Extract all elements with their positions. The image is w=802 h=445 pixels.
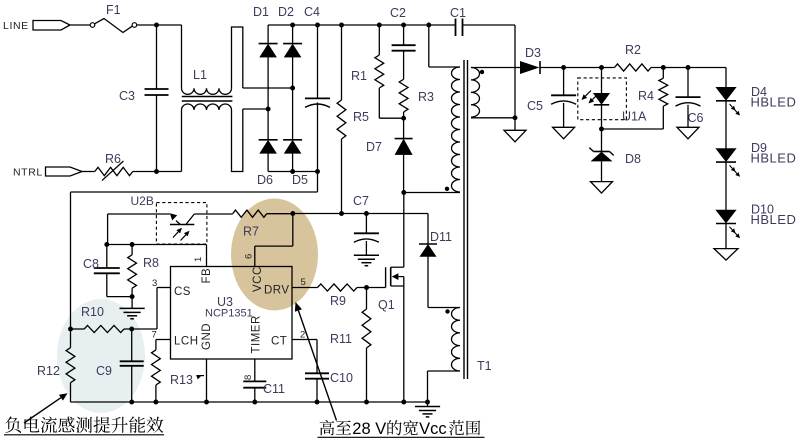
- wire R8 top: [131, 245, 133, 255]
- resistor R5: [337, 100, 346, 139]
- wire U1A LED bottom: [601, 105, 603, 129]
- wire D7 anode down: [403, 155, 405, 193]
- R13 pointer mark: [196, 376, 204, 380]
- wire C3 top: [156, 25, 158, 89]
- svg-text:R9: R9: [330, 294, 346, 308]
- capacitor C7: [354, 233, 379, 242]
- ground main: [415, 407, 440, 417]
- T1 auxiliary winding: [452, 308, 461, 372]
- optocoupler U2B dashed box: [156, 203, 207, 244]
- svg-text:D1: D1: [253, 5, 269, 19]
- wire U1A LED top: [601, 68, 603, 94]
- wire U2B emitter to R7: [194, 213, 232, 215]
- svg-text:C1: C1: [450, 6, 466, 20]
- junction gate/R11: [364, 285, 369, 290]
- U1A light arrow 2: [589, 94, 599, 104]
- svg-text:FB: FB: [201, 268, 213, 284]
- junction R10/C9: [129, 327, 134, 332]
- wire negative return left leg: [70, 192, 72, 329]
- D9 light arrow 2: [734, 170, 740, 177]
- resistor R9: [318, 284, 358, 291]
- wire aux bottom terminal: [428, 371, 461, 402]
- svg-text:C4: C4: [304, 5, 320, 19]
- svg-text:7: 7: [152, 330, 157, 341]
- ground under LED string: [714, 249, 738, 261]
- diode D5: [283, 140, 302, 154]
- resistor R8: [128, 255, 137, 288]
- ground (secondary) under C1 leg: [504, 130, 526, 142]
- junction R1/R3 node: [401, 116, 406, 121]
- LED D4: [716, 87, 736, 101]
- wire R10 left: [71, 328, 85, 330]
- svg-text:2: 2: [300, 330, 305, 341]
- wire bridge - rail: [268, 171, 317, 173]
- svg-text:T1: T1: [477, 359, 492, 373]
- wire R11 bottom: [366, 348, 368, 402]
- svg-text:8: 8: [243, 375, 254, 380]
- wire D2 top stub: [292, 25, 294, 44]
- svg-text:C2: C2: [390, 6, 406, 20]
- junction rail R11: [364, 400, 369, 405]
- svg-text:CS: CS: [174, 286, 191, 298]
- ground under C6: [677, 127, 699, 139]
- resistor R1: [375, 55, 384, 88]
- svg-text:C6: C6: [688, 111, 704, 125]
- wire GND pin: [206, 359, 208, 402]
- junction LED/R4/D8: [599, 127, 604, 132]
- wire C7 gnd stub: [365, 241, 367, 255]
- wire C1 right to secondary side: [463, 25, 516, 118]
- wire D1-D6 column: [267, 57, 269, 140]
- inductor L1 bottom winding: [182, 104, 232, 110]
- wire D11 top stub: [427, 214, 429, 245]
- svg-text:U1A: U1A: [622, 110, 647, 124]
- wire primary feed: [429, 25, 460, 67]
- annotation 2 text part 范围: [449, 420, 480, 435]
- D10 light arrow 1: [730, 227, 736, 234]
- wire primary bottom to drain column: [403, 193, 405, 268]
- wire R10 right to CS: [124, 328, 157, 330]
- junction out at C5: [561, 65, 566, 70]
- svg-text:R5: R5: [353, 110, 369, 124]
- svg-text:HBLED: HBLED: [751, 95, 797, 110]
- wire R9 to gate: [357, 287, 386, 289]
- junction C8/R8 gnd node: [130, 294, 135, 299]
- junction FB at R8: [130, 242, 135, 247]
- T1 secondary winding: [471, 68, 480, 118]
- svg-text:Vcc: Vcc: [419, 420, 447, 438]
- svg-text:VCC: VCC: [252, 266, 264, 292]
- svg-text:U2B: U2B: [131, 194, 154, 208]
- ground under C7: [354, 255, 379, 265]
- wire CT pin 2: [292, 340, 317, 374]
- LED D9: [716, 149, 736, 163]
- svg-text:R11: R11: [330, 332, 352, 346]
- highlight ellipse (ochre) around R7/VCC area: [231, 199, 318, 311]
- wire D4 to D9: [725, 101, 727, 149]
- junction R10/R12 node: [68, 327, 73, 332]
- wire secondary top to D3: [471, 67, 520, 69]
- U2B phototransistor: [170, 213, 195, 224]
- U1A light arrow 1: [582, 91, 592, 101]
- inductor L1 top winding: [182, 88, 232, 94]
- diode D2: [283, 44, 302, 58]
- resistor R12: [66, 348, 75, 383]
- svg-text:D3: D3: [525, 46, 541, 60]
- junction rail at D2: [290, 23, 295, 28]
- wire D8 top: [601, 129, 603, 152]
- wire D2-D5 column: [292, 57, 294, 140]
- annotation 1 arrow: [24, 393, 68, 423]
- resistor R4: [659, 78, 668, 106]
- svg-text:DRV: DRV: [264, 285, 290, 297]
- svg-text:R2: R2: [625, 43, 641, 57]
- wire C8 top: [106, 245, 108, 269]
- wire AC input 2 to bridge: [243, 87, 293, 89]
- wire LCH pin 7: [156, 340, 171, 350]
- svg-text:R10: R10: [81, 305, 104, 319]
- capacitor C10: [305, 373, 329, 378]
- capacitor C11: [243, 381, 266, 387]
- capacitor C9: [120, 361, 144, 366]
- wire C3 bottom: [156, 95, 158, 172]
- connector NTRL: [46, 167, 83, 176]
- resistor R13: [152, 350, 161, 385]
- svg-text:GND: GND: [201, 323, 213, 350]
- junction FB at C8: [104, 242, 109, 247]
- wire TIMER pin 8: [254, 359, 256, 381]
- wire L1 top-right up-and-over: [231, 27, 244, 88]
- wire AC input 1 to bridge: [243, 108, 268, 110]
- wire C11 bottom: [254, 388, 256, 402]
- wire R1 top: [378, 25, 380, 55]
- junction rail at C2: [401, 23, 406, 28]
- svg-text:C7: C7: [353, 194, 369, 208]
- wire FB line: [107, 244, 207, 246]
- wire gnd stub bottom: [427, 402, 429, 407]
- wire R1 bottom: [379, 88, 403, 118]
- svg-text:CT: CT: [271, 336, 287, 348]
- svg-text:TIMER: TIMER: [251, 315, 263, 353]
- wire D5 anode stub: [292, 153, 294, 171]
- optocoupler U1A dashed box: [578, 78, 627, 120]
- svg-text:D11: D11: [430, 230, 452, 244]
- junction rail at R1: [377, 23, 382, 28]
- wire C6 gnd stub: [687, 105, 689, 128]
- svg-text:R6: R6: [105, 152, 121, 166]
- wire negative return right leg: [317, 172, 319, 193]
- wire C5 gnd stub: [563, 103, 565, 127]
- T1 primary polarity dot: [445, 187, 449, 191]
- junction R7/Vcc line: [290, 211, 295, 216]
- resistor R3: [399, 79, 408, 112]
- svg-text:D5: D5: [292, 173, 308, 187]
- wire to LED string: [725, 68, 727, 88]
- svg-text:LCH: LCH: [174, 336, 199, 348]
- connector LINE: [33, 21, 70, 31]
- zener diode D8: [589, 148, 613, 162]
- wire aux top terminal: [428, 307, 460, 309]
- wire C7 top: [365, 214, 367, 234]
- svg-text:D8: D8: [625, 152, 641, 166]
- junction rail TIMER/C11: [252, 400, 257, 405]
- junction out at U1A LED: [599, 65, 604, 70]
- wire D1 top stub: [267, 25, 269, 44]
- fuse F1: [90, 19, 137, 33]
- wire R5 bottom: [341, 139, 343, 214]
- wire C4 top: [317, 25, 319, 98]
- D9 light arrow 1: [730, 165, 736, 172]
- junction NTRL rail / C3 bottom: [154, 169, 159, 174]
- svg-text:LINE: LINE: [3, 20, 29, 32]
- resistor R10: [84, 325, 124, 332]
- svg-text:3: 3: [152, 278, 157, 289]
- junction rail C10: [315, 400, 320, 405]
- svg-text:NCP1351: NCP1351: [205, 308, 253, 320]
- wire R6 to L1: [133, 171, 182, 173]
- junction - rail at C4: [315, 169, 320, 174]
- svg-text:NTRL: NTRL: [13, 167, 43, 179]
- wire bridge + rail: [268, 24, 455, 26]
- svg-text:R8: R8: [143, 256, 159, 270]
- wire FB pin 1: [206, 245, 208, 267]
- wire Vcc pin route: [255, 214, 293, 267]
- wire C2 top: [403, 25, 405, 45]
- junction rail at primary feed: [426, 23, 431, 28]
- wire NTRL to R6: [82, 171, 95, 173]
- resistor R7: [233, 210, 267, 217]
- junction rail at R5: [339, 23, 344, 28]
- T1 aux polarity dot: [445, 309, 449, 313]
- wire R2 to LED string: [651, 67, 726, 69]
- wire C8 bottom: [107, 273, 132, 296]
- junction rail GND pin: [204, 400, 209, 405]
- wire D10 to gnd: [725, 224, 727, 249]
- op-amp U3 box: [171, 267, 293, 360]
- svg-text:1: 1: [193, 257, 204, 262]
- capacitor C2: [392, 45, 416, 51]
- svg-text:C5: C5: [527, 99, 543, 113]
- junction out at C6: [686, 65, 691, 70]
- svg-text:HBLED: HBLED: [751, 212, 797, 227]
- wire D6 anode stub: [267, 153, 269, 171]
- junction rail aux gnd: [425, 400, 430, 405]
- U2B light arrow 2: [181, 231, 190, 241]
- svg-text:D7: D7: [366, 140, 382, 154]
- svg-text:F1: F1: [106, 3, 121, 17]
- svg-text:R4: R4: [638, 89, 654, 103]
- wire C2 to R3: [403, 51, 405, 80]
- ground under R8: [120, 308, 145, 318]
- capacitor C3: [145, 89, 169, 95]
- wire C9 bottom: [131, 366, 133, 402]
- annotation 1 underline: [4, 434, 164, 436]
- wire R8 bottom: [131, 288, 133, 296]
- annotation 2 underline: [318, 436, 485, 438]
- T1 secondary polarity dot: [480, 70, 484, 74]
- wire C9 top: [131, 329, 133, 361]
- junction Vcc at R5: [339, 211, 344, 216]
- capacitor C4: [305, 98, 330, 107]
- junction bridge - at D5: [290, 169, 295, 174]
- svg-text:L1: L1: [193, 68, 207, 82]
- svg-text:5: 5: [301, 277, 306, 288]
- wire U2B collector: [108, 214, 170, 245]
- svg-text:R13: R13: [170, 373, 193, 387]
- wire L1 bottom-left terminal: [181, 110, 183, 172]
- D4 light arrow 1: [730, 104, 736, 111]
- junction LINE rail / C3 top: [154, 23, 159, 28]
- diode D11: [419, 244, 437, 257]
- capacitor C6: [676, 97, 701, 106]
- wire D3 to R2: [540, 67, 615, 69]
- highlight ellipse (light blue) around R12/C9/R10: [57, 299, 145, 413]
- resistor R6 (fusible): [95, 167, 133, 175]
- wire R3 bottom: [403, 112, 405, 139]
- wire R4 bottom: [602, 106, 664, 129]
- D10 light arrow 2: [734, 232, 740, 239]
- wire secondary bottom: [471, 117, 515, 119]
- diode D3: [520, 61, 540, 74]
- LED D10: [716, 210, 736, 224]
- svg-text:R12: R12: [37, 364, 60, 378]
- junction out at R4: [661, 65, 666, 70]
- wire gnd stub: [131, 297, 133, 309]
- svg-text:C10: C10: [330, 371, 353, 385]
- wire DRV pin 5: [292, 287, 318, 289]
- L1 core lines: [182, 97, 233, 102]
- LED U1A: [594, 93, 610, 105]
- wire LINE to F1: [70, 24, 90, 26]
- wire Q1 source down: [403, 277, 405, 402]
- annotation text: negative current sense improves efficiency: [5, 416, 163, 432]
- svg-text:6: 6: [244, 254, 255, 259]
- capacitor C1: [456, 19, 463, 37]
- svg-text:28 V: 28 V: [352, 420, 386, 438]
- diode D1: [259, 44, 278, 58]
- diode D7: [395, 139, 413, 155]
- R6 fusible strike line: [102, 161, 124, 181]
- svg-text:D6: D6: [257, 173, 273, 187]
- junction rail R13: [153, 400, 158, 405]
- wire F1 to L1 top-left: [137, 24, 182, 26]
- ground under C5: [553, 127, 575, 139]
- wire R7 to Vcc node: [267, 213, 293, 215]
- wire C10 bottom: [316, 379, 318, 402]
- junction secondary gnd / C1: [513, 115, 518, 120]
- wire D8 bottom: [601, 162, 603, 182]
- svg-text:C9: C9: [96, 364, 112, 378]
- wire R5 top: [341, 25, 343, 100]
- wire primary bottom terminal: [404, 192, 460, 194]
- U2B light arrow 1: [173, 228, 182, 238]
- svg-text:Q1: Q1: [378, 298, 395, 312]
- junction AC2 at D2/D5: [290, 86, 295, 91]
- junction rail C9: [129, 400, 134, 405]
- ground under D8: [591, 182, 613, 194]
- wire bottom rail: [71, 401, 428, 403]
- D4 light arrow 2: [734, 109, 740, 116]
- wire R13 bottom: [155, 385, 157, 402]
- annotation 2 text part 高至: [320, 420, 351, 435]
- junction rail at C4: [315, 23, 320, 28]
- wire D9 to D10: [725, 162, 727, 210]
- wire R11 top: [366, 288, 368, 310]
- junction rail Q1 source: [401, 400, 406, 405]
- diode D6: [259, 140, 278, 154]
- wire L1 top-left terminal: [181, 25, 183, 88]
- wire C4 bottom: [317, 103, 319, 172]
- capacitor C8: [94, 268, 120, 273]
- wire Vcc node line: [293, 213, 428, 215]
- wire L1 bottom-right down-and-over: [231, 109, 244, 172]
- wire CS pin 3: [157, 288, 171, 330]
- svg-text:C11: C11: [263, 382, 285, 396]
- svg-text:C3: C3: [119, 89, 135, 103]
- svg-text:R1: R1: [351, 69, 367, 83]
- wire R12 leads: [70, 329, 72, 402]
- svg-text:R7: R7: [243, 225, 259, 239]
- svg-text:R3: R3: [418, 90, 434, 104]
- junction AC1 at D1/D6: [266, 107, 271, 112]
- wire C5 top: [563, 68, 565, 96]
- resistor R11: [362, 309, 371, 348]
- capacitor C5: [551, 95, 576, 104]
- wire secondary gnd stub: [514, 118, 516, 131]
- transformer T1 core: [464, 60, 468, 379]
- svg-text:D2: D2: [278, 5, 294, 19]
- wire negative return horizontal: [71, 191, 318, 193]
- annotation 2 arrow: [295, 302, 337, 421]
- wire R4 top: [662, 68, 664, 79]
- T1 primary winding: [452, 67, 460, 192]
- annotation 2 text part 的宽: [387, 420, 418, 435]
- svg-text:HBLED: HBLED: [751, 151, 797, 166]
- wire C6 top: [687, 68, 689, 98]
- resistor R2: [615, 64, 652, 71]
- wire D11 anode down: [427, 257, 429, 308]
- transistor Q1 (MOSFET): [386, 267, 404, 287]
- svg-text:C8: C8: [83, 257, 99, 271]
- junction Vcc at C7: [364, 211, 369, 216]
- junction D7/primary/drain: [401, 190, 406, 195]
